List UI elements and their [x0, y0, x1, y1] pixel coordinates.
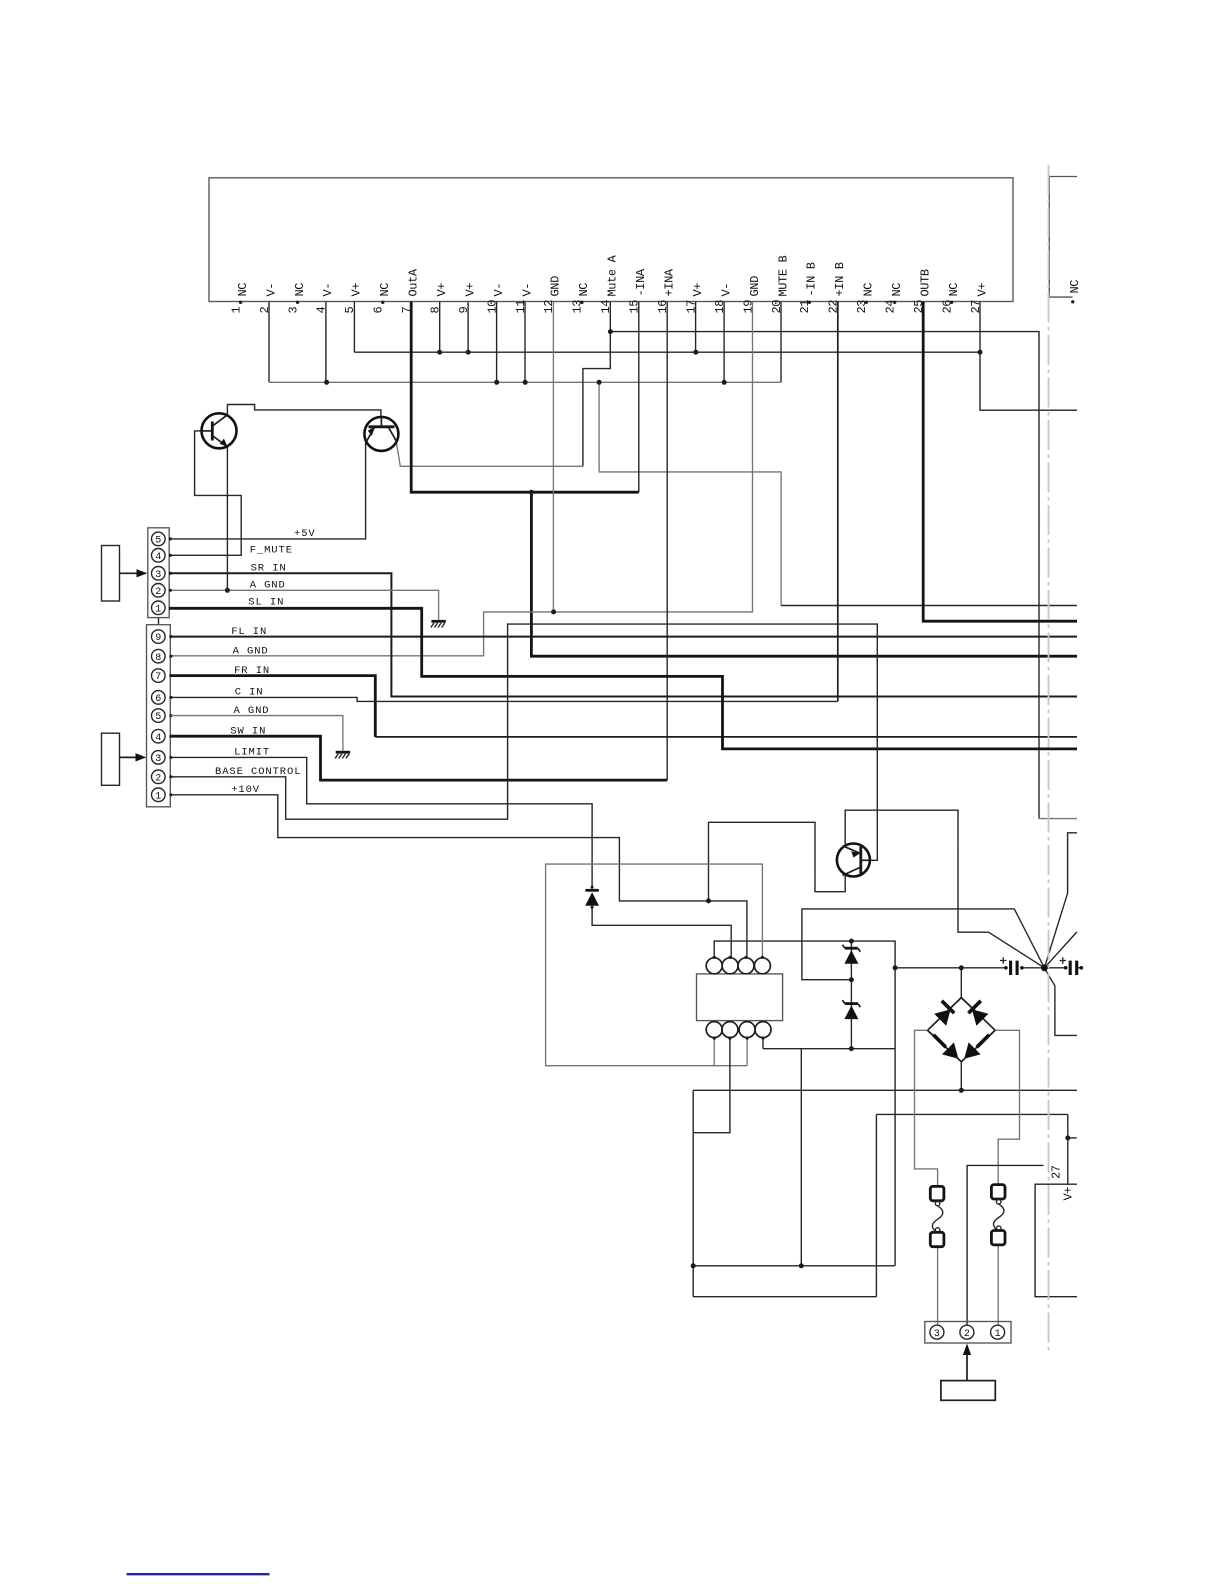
- svg-text:F_MUTE: F_MUTE: [250, 545, 293, 557]
- svg-text:6: 6: [372, 307, 386, 314]
- svg-text:1: 1: [155, 791, 161, 802]
- svg-text:NC: NC: [1068, 280, 1082, 294]
- svg-text:4: 4: [155, 733, 161, 744]
- svg-text:NC: NC: [862, 283, 876, 297]
- svg-text:7: 7: [155, 672, 161, 683]
- svg-text:19: 19: [741, 300, 755, 314]
- svg-text:SW IN: SW IN: [230, 726, 266, 738]
- svg-text:+10V: +10V: [231, 784, 260, 796]
- svg-text:V+: V+: [435, 283, 449, 297]
- svg-text:2: 2: [155, 773, 161, 784]
- svg-text:V+: V+: [691, 283, 705, 297]
- svg-text:27: 27: [1050, 1165, 1064, 1179]
- svg-text:V-: V-: [520, 283, 534, 297]
- svg-text:5: 5: [155, 712, 161, 723]
- svg-text:V+: V+: [350, 283, 364, 297]
- svg-text:V-: V-: [492, 283, 506, 297]
- svg-text:NC: NC: [378, 283, 392, 297]
- svg-text:V-: V-: [321, 283, 335, 297]
- svg-text:A GND: A GND: [250, 580, 286, 592]
- svg-text:1: 1: [995, 1329, 1001, 1340]
- svg-text:3: 3: [286, 307, 300, 314]
- svg-text:LIMIT: LIMIT: [234, 747, 270, 759]
- svg-text:MUTE B: MUTE B: [776, 255, 790, 296]
- svg-text:3: 3: [155, 754, 161, 765]
- svg-text:V+: V+: [463, 283, 477, 297]
- svg-text:NC: NC: [293, 283, 307, 297]
- svg-text:V+: V+: [1062, 1187, 1076, 1201]
- svg-text:SR IN: SR IN: [251, 563, 287, 575]
- svg-text:V-: V-: [264, 283, 278, 297]
- svg-text:6: 6: [155, 694, 161, 705]
- svg-text:A GND: A GND: [234, 705, 270, 717]
- svg-text:3: 3: [155, 570, 161, 581]
- svg-text:18: 18: [713, 300, 727, 314]
- svg-text:NC: NC: [577, 283, 591, 297]
- svg-text:OutA: OutA: [407, 268, 421, 296]
- svg-text:V-: V-: [719, 283, 733, 297]
- svg-text:Mute A: Mute A: [606, 254, 620, 296]
- svg-text:SL IN: SL IN: [248, 597, 284, 609]
- svg-text:3: 3: [934, 1329, 940, 1340]
- svg-text:2: 2: [964, 1329, 970, 1340]
- svg-text:8: 8: [155, 653, 161, 664]
- svg-text:5: 5: [343, 307, 357, 314]
- svg-text:A GND: A GND: [233, 646, 269, 658]
- svg-text:+INA: +INA: [663, 268, 677, 296]
- svg-text:-INA: -INA: [634, 268, 648, 296]
- svg-text:GND: GND: [748, 276, 762, 297]
- svg-text:12: 12: [542, 300, 556, 314]
- svg-text:GND: GND: [549, 276, 563, 297]
- svg-text:2: 2: [155, 587, 161, 598]
- svg-text:1: 1: [155, 604, 161, 615]
- svg-text:+5V: +5V: [294, 528, 316, 540]
- svg-text:BASE CONTROL: BASE CONTROL: [215, 766, 301, 778]
- svg-text:17: 17: [684, 300, 698, 314]
- svg-text:4: 4: [155, 552, 161, 563]
- svg-text:9: 9: [155, 633, 161, 644]
- svg-text:+IN B: +IN B: [833, 262, 847, 296]
- svg-text:FR IN: FR IN: [234, 665, 270, 677]
- svg-text:V+: V+: [975, 283, 989, 297]
- svg-text:5: 5: [155, 536, 161, 547]
- svg-text:C IN: C IN: [235, 687, 264, 699]
- svg-text:FL IN: FL IN: [231, 626, 267, 638]
- svg-text:4: 4: [315, 307, 329, 314]
- svg-text:-IN B: -IN B: [805, 262, 819, 296]
- svg-text:1: 1: [229, 307, 243, 314]
- svg-text:NC: NC: [890, 283, 904, 297]
- svg-text:NC: NC: [947, 283, 961, 297]
- svg-text:OUTB: OUTB: [919, 269, 933, 296]
- svg-text:NC: NC: [236, 283, 250, 297]
